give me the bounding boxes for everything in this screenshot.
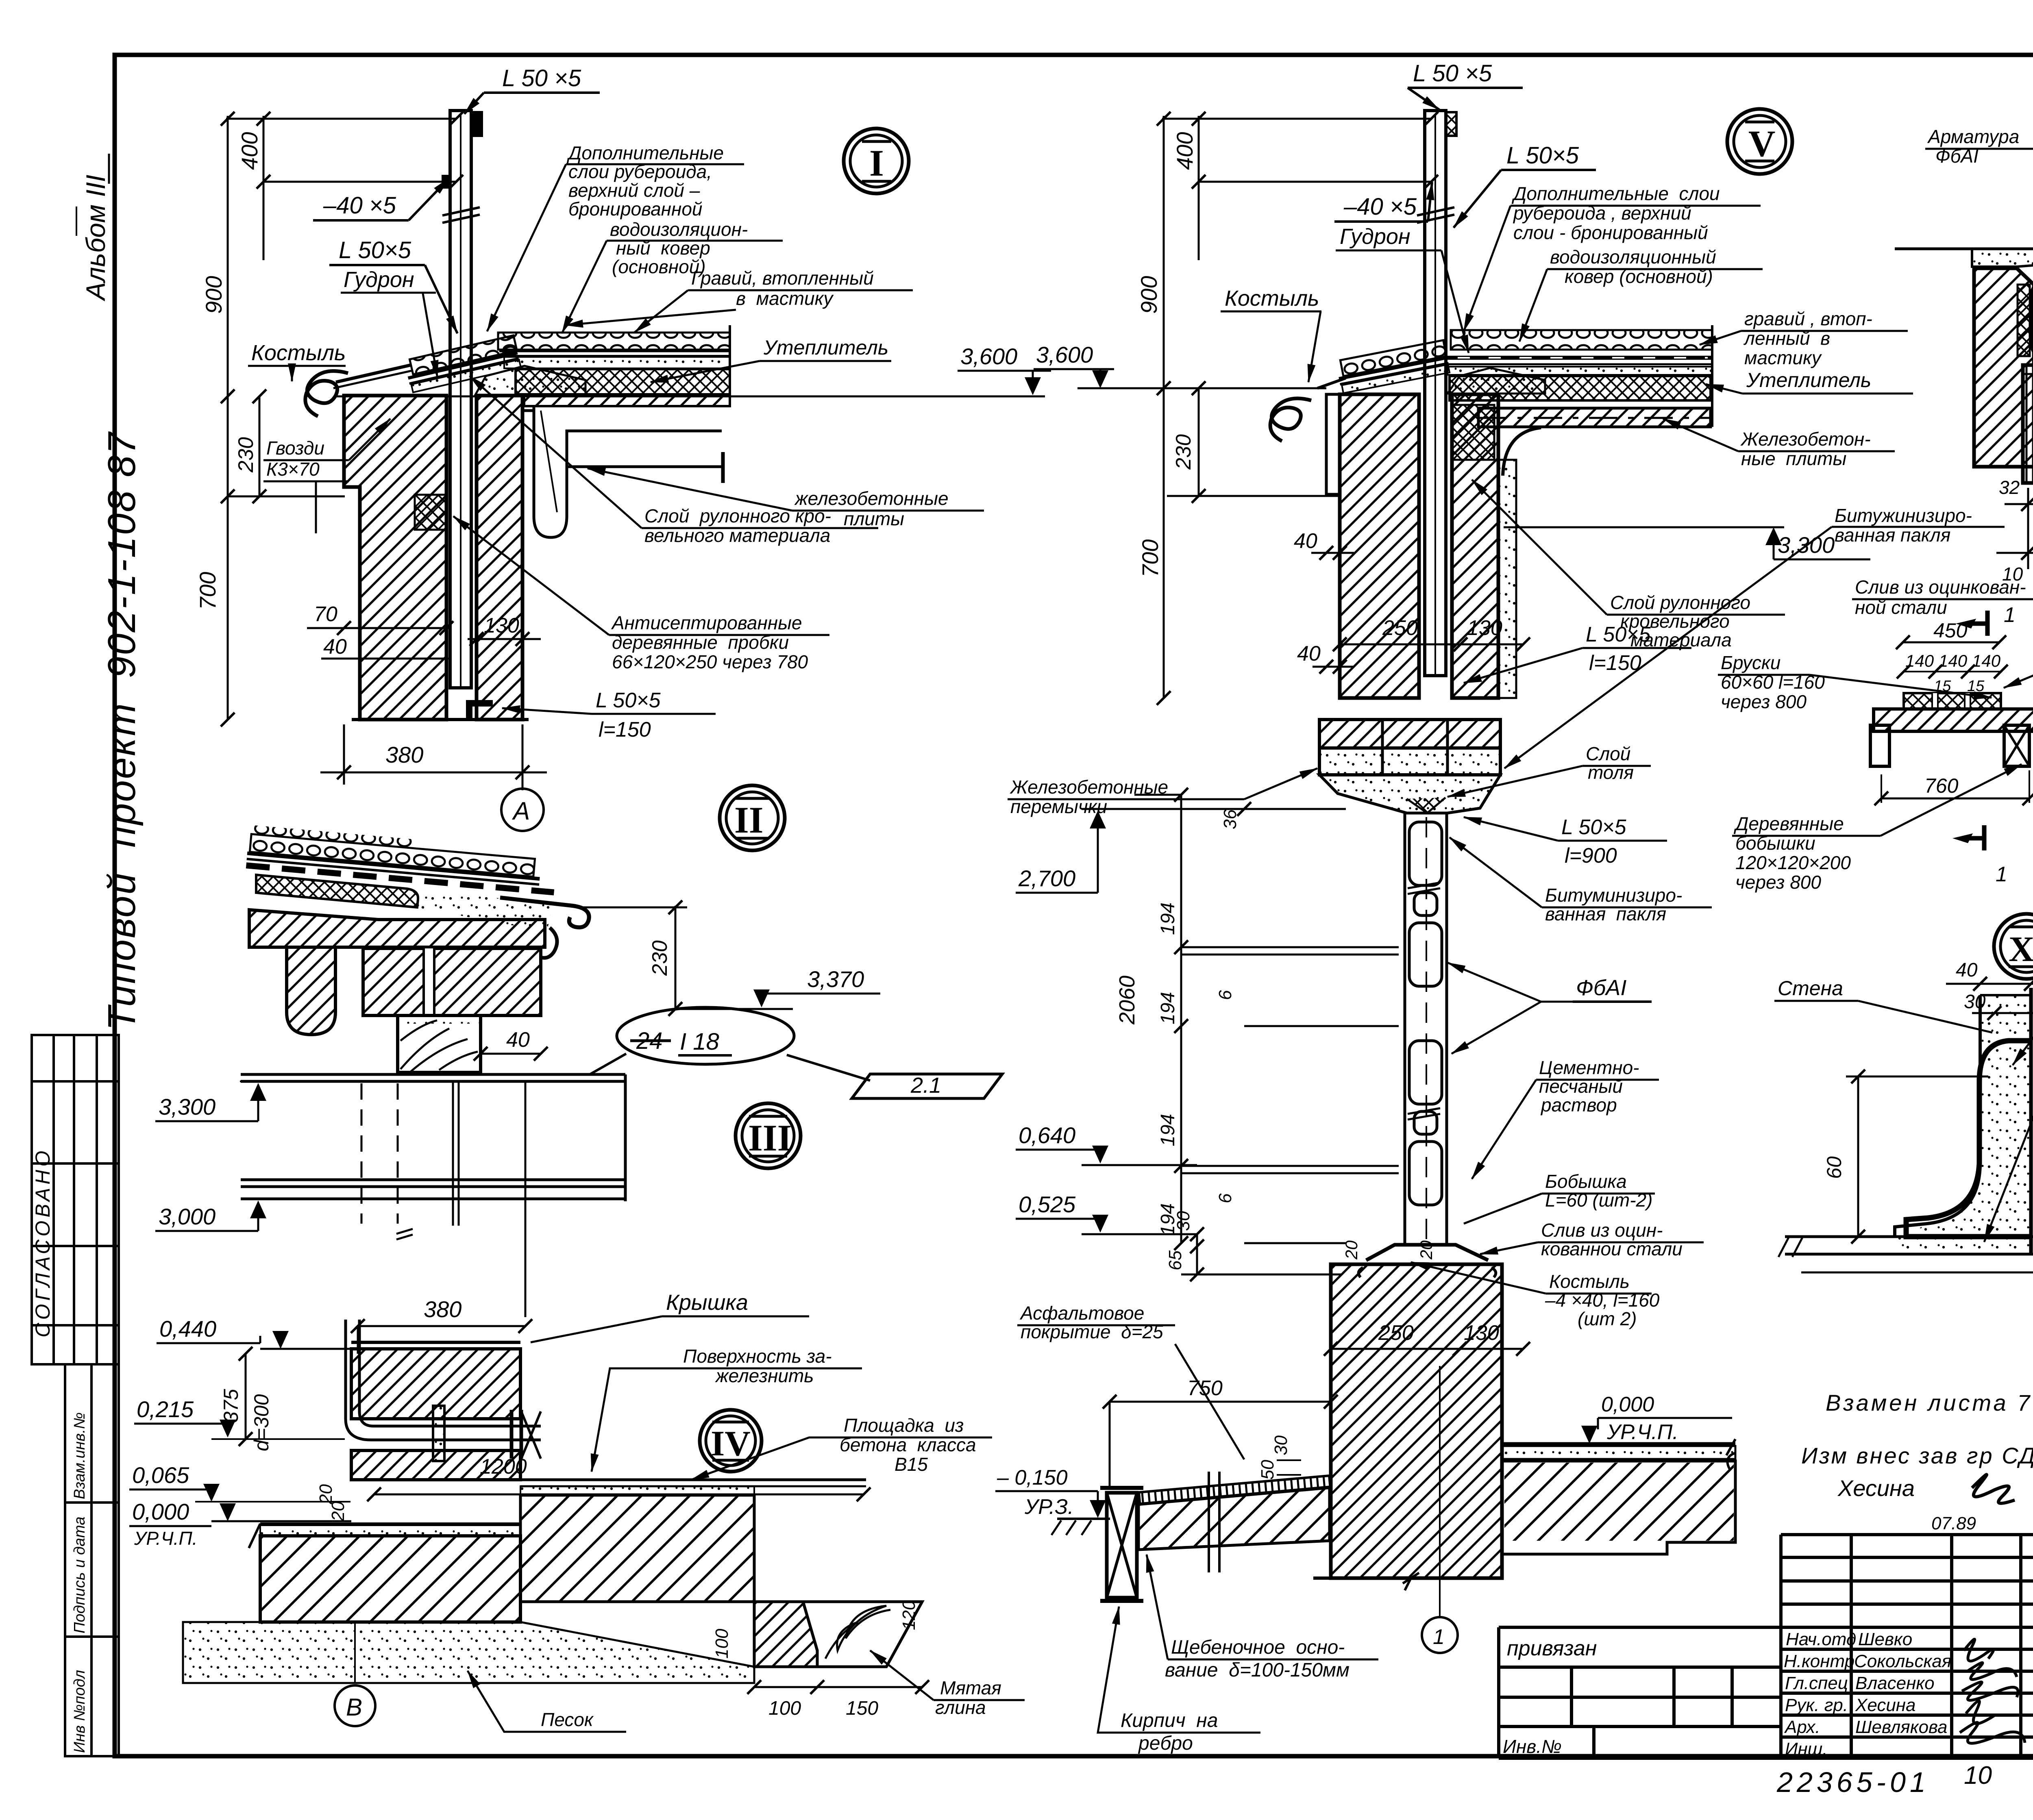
svg-text:3,000: 3,000 bbox=[159, 1204, 215, 1229]
svg-text:400: 400 bbox=[1172, 132, 1197, 170]
svg-text:Рук. гр.: Рук. гр. bbox=[1785, 1695, 1848, 1715]
svg-text:3,300: 3,300 bbox=[159, 1094, 215, 1120]
circled detail number I bbox=[844, 128, 909, 194]
sloped flashing up the parapet bbox=[404, 335, 521, 393]
svg-text:Нач.отд: Нач.отд bbox=[1786, 1629, 1856, 1649]
svg-text:2060: 2060 bbox=[1115, 976, 1139, 1025]
svg-text:3,600: 3,600 bbox=[960, 344, 1017, 369]
svg-text:L 50×5: L 50×5 bbox=[1586, 623, 1651, 646]
svg-text:120: 120 bbox=[899, 1600, 919, 1630]
svg-text:вание δ=100-150мм: вание δ=100-150мм bbox=[1165, 1659, 1350, 1681]
svg-text:20: 20 bbox=[1342, 1240, 1361, 1260]
beam ellipse callout bbox=[617, 1007, 794, 1064]
svg-text:В15: В15 bbox=[895, 1454, 928, 1475]
svg-text:ХI: ХI bbox=[2009, 930, 2033, 969]
svg-text:700: 700 bbox=[1137, 539, 1163, 577]
svg-text:900: 900 bbox=[201, 276, 226, 314]
svg-text:70: 70 bbox=[314, 602, 337, 626]
cove tile thick profile bbox=[1906, 1041, 2030, 1237]
svg-text:Взам.инв.№: Взам.инв.№ bbox=[71, 1412, 88, 1499]
230 dim bbox=[1198, 388, 1200, 496]
svg-text:Сокольская: Сокольская bbox=[1854, 1651, 1951, 1671]
svg-text:Альбом III: Альбом III bbox=[81, 175, 111, 302]
230 dim right bbox=[675, 906, 677, 1009]
svg-text:Слив из оцинкован-: Слив из оцинкован- bbox=[1855, 576, 2026, 598]
svg-text:32: 32 bbox=[1999, 477, 2020, 498]
svg-text:0,640: 0,640 bbox=[1019, 1122, 1075, 1148]
svg-text:Н.контр: Н.контр bbox=[1784, 1651, 1855, 1671]
svg-text:Щебеночное осно-: Щебеночное осно- bbox=[1171, 1637, 1345, 1658]
svg-text:Инш.: Инш. bbox=[1785, 1739, 1827, 1759]
svg-text:0,440: 0,440 bbox=[159, 1316, 216, 1342]
comb surface (brick ramp) bbox=[1139, 1476, 1330, 1505]
svg-text:УР.Ч.П.: УР.Ч.П. bbox=[134, 1528, 198, 1549]
svg-text:L 50 ×5: L 50 ×5 bbox=[502, 65, 581, 91]
svg-text:130: 130 bbox=[1467, 616, 1502, 640]
-0,150 level #1 bbox=[997, 1466, 1074, 1519]
bruski etc labels left bbox=[1721, 652, 1825, 712]
labels bbox=[683, 1346, 832, 1386]
svg-text:Кирпич на: Кирпич на bbox=[1121, 1710, 1218, 1731]
svg-text:Гудрон: Гудрон bbox=[344, 267, 414, 292]
svg-text:Железобетон-: Железобетон- bbox=[1740, 428, 1871, 450]
svg-text:1: 1 bbox=[1433, 1625, 1445, 1649]
svg-text:Утеплитель: Утеплитель bbox=[1746, 369, 1871, 391]
svg-text:22365-01: 22365-01 bbox=[1776, 1766, 1930, 1798]
rib of plate bbox=[287, 947, 335, 1035]
30 / 65 chain at x 2944 bbox=[1196, 1234, 1198, 1274]
stipple zone bbox=[416, 890, 553, 932]
labels bbox=[1165, 1637, 1350, 1681]
svg-text:слои - бронированный: слои - бронированный bbox=[1513, 222, 1708, 243]
roof slab bbox=[524, 396, 730, 537]
svg-text:3,370: 3,370 bbox=[807, 966, 864, 992]
svg-text:194: 194 bbox=[1157, 992, 1179, 1024]
approval table left edge bbox=[32, 1035, 119, 1364]
svg-text:Битуминизиро-: Битуминизиро- bbox=[1545, 885, 1682, 906]
svg-text:10: 10 bbox=[1964, 1761, 1992, 1790]
floor bbox=[1785, 1235, 2033, 1238]
svg-text:Гл.спец: Гл.спец bbox=[1785, 1673, 1848, 1693]
svg-text:66×120×250 через 780: 66×120×250 через 780 bbox=[612, 651, 808, 672]
375 dim and d=300 bbox=[245, 1354, 247, 1439]
svg-text:водоизоляционный: водоизоляционный bbox=[1550, 246, 1716, 267]
brick on edge bbox=[1107, 1493, 1137, 1598]
flag 2.1 bbox=[852, 1074, 1002, 1098]
wooden block with wavy grain bbox=[398, 1015, 481, 1072]
svg-text:100: 100 bbox=[712, 1629, 732, 1659]
crosshatch band bbox=[256, 875, 418, 907]
dim 400 / 900 vertical chain bbox=[226, 116, 456, 720]
asphalt pavement label bbox=[1019, 1302, 1163, 1342]
svg-text:40: 40 bbox=[1297, 642, 1321, 665]
svg-text:I: I bbox=[869, 142, 884, 184]
svg-text:Утеплитель: Утеплитель bbox=[763, 336, 888, 359]
svg-text:мастику: мастику bbox=[1744, 347, 1822, 368]
svg-text:Изм внес зав гр СДС: Изм внес зав гр СДС bbox=[1801, 1443, 2033, 1468]
floor to the right of wall bbox=[520, 1479, 866, 1481]
svg-text:СОГЛАСОВАНО: СОГЛАСОВАНО bbox=[31, 1148, 54, 1337]
svg-text:Слой рулонного: Слой рулонного bbox=[1610, 592, 1750, 613]
svg-text:380: 380 bbox=[424, 1296, 461, 1322]
svg-text:Костыль: Костыль bbox=[1225, 286, 1319, 311]
hook (kostyl) bbox=[305, 371, 348, 416]
svg-text:375: 375 bbox=[220, 1389, 242, 1423]
wall hatched (two parts around post slot) bbox=[344, 396, 529, 720]
labels bbox=[1927, 126, 2019, 167]
svg-text:Битужинизиро-: Битужинизиро- bbox=[1835, 505, 1972, 526]
svg-text:1200: 1200 bbox=[480, 1455, 527, 1479]
svg-text:40: 40 bbox=[323, 635, 347, 659]
svg-text:194: 194 bbox=[1157, 902, 1179, 935]
asphalt wedge below comb bbox=[1138, 1487, 1330, 1550]
svg-text:–40 ×5: –40 ×5 bbox=[1343, 194, 1417, 220]
svg-text:Антисептированные: Антисептированные bbox=[611, 612, 802, 633]
node B bbox=[354, 1622, 356, 1683]
svg-text:0,065: 0,065 bbox=[132, 1462, 189, 1488]
svg-text:Асфальтовое: Асфальтовое bbox=[1019, 1302, 1144, 1324]
0,000 level right bbox=[1601, 1393, 1678, 1444]
svg-text:L 50×5: L 50×5 bbox=[1561, 815, 1627, 839]
svg-text:30: 30 bbox=[1271, 1435, 1291, 1455]
svg-text:40: 40 bbox=[1956, 959, 1978, 981]
svg-text:Бруски: Бруски bbox=[1721, 652, 1781, 673]
glass blocks row bbox=[2031, 280, 2033, 359]
lid plate bbox=[351, 1341, 520, 1344]
svg-text:УР.Ч.П.: УР.Ч.П. bbox=[1606, 1420, 1678, 1444]
svg-text:250: 250 bbox=[1382, 616, 1418, 640]
node A bbox=[501, 789, 544, 831]
svg-text:В: В bbox=[346, 1694, 362, 1721]
svg-text:Бобышка: Бобышка bbox=[1545, 1171, 1627, 1192]
svg-text:230: 230 bbox=[234, 437, 258, 473]
svg-text:120×120×200: 120×120×200 bbox=[1735, 852, 1851, 873]
svg-text:Типовой проект 902-1-108 87: Типовой проект 902-1-108 87 bbox=[100, 431, 144, 1031]
svg-text:Гвозди: Гвозди bbox=[266, 437, 324, 459]
lower wall bbox=[1331, 1264, 1502, 1578]
svg-text:2.1: 2.1 bbox=[910, 1073, 941, 1098]
floor right of lower wall bbox=[1502, 1442, 1735, 1445]
svg-text:привязан: привязан bbox=[1507, 1637, 1597, 1660]
dim chain 2060/194 etc bbox=[1134, 795, 1399, 1243]
svg-text:6: 6 bbox=[1215, 990, 1235, 1000]
svg-text:760: 760 bbox=[1924, 774, 1959, 797]
wall: white strip + hatch parts bbox=[1326, 394, 1498, 698]
svg-text:Арматура: Арматура bbox=[1927, 126, 2019, 147]
kostyl hook bbox=[1270, 398, 1311, 441]
svg-text:L 50×5: L 50×5 bbox=[596, 689, 661, 712]
svg-text:d=300: d=300 bbox=[250, 1394, 273, 1451]
floor and ground below bbox=[260, 1522, 520, 1525]
svg-text:230: 230 bbox=[1172, 434, 1195, 470]
svg-text:Слой: Слой bbox=[1586, 743, 1630, 764]
svg-text:140: 140 bbox=[1972, 651, 2001, 670]
svg-text:верхний слой –: верхний слой – bbox=[568, 180, 700, 201]
svg-text:L 50 ×5: L 50 ×5 bbox=[1413, 60, 1492, 87]
FBS block column bbox=[1405, 813, 1447, 1243]
svg-text:Деревянные: Деревянные bbox=[1733, 813, 1844, 834]
svg-text:230: 230 bbox=[648, 940, 672, 976]
svg-text:Шевлякова: Шевлякова bbox=[1855, 1717, 1948, 1737]
svg-text:Взамен листа 7: Взамен листа 7 bbox=[1826, 1390, 2032, 1416]
svg-text:Поверхность за-: Поверхность за- bbox=[683, 1346, 832, 1367]
svg-text:раствор: раствор bbox=[1540, 1094, 1617, 1115]
svg-text:Хесина: Хесина bbox=[1855, 1695, 1915, 1715]
cant wedge right of post bbox=[1447, 368, 1545, 394]
svg-text:Стена: Стена bbox=[1778, 977, 1843, 1000]
svg-text:750: 750 bbox=[1187, 1376, 1223, 1400]
pit with clay bbox=[754, 1602, 817, 1667]
sand below bbox=[183, 1622, 754, 1683]
lintels under slab bbox=[363, 948, 541, 1015]
svg-text:через 800: через 800 bbox=[1735, 872, 1821, 893]
svg-text:65: 65 bbox=[1165, 1250, 1185, 1270]
svg-text:50: 50 bbox=[1258, 1460, 1278, 1480]
svg-text:III: III bbox=[748, 1117, 792, 1159]
svg-text:Власенко: Власенко bbox=[1855, 1673, 1935, 1693]
svg-text:40: 40 bbox=[506, 1028, 530, 1052]
top bands bbox=[1972, 249, 2033, 267]
svg-text:L 50×5: L 50×5 bbox=[1506, 142, 1579, 169]
svg-text:194: 194 bbox=[1157, 1114, 1179, 1146]
svg-text:водоизоляцион-: водоизоляцион- bbox=[610, 219, 748, 240]
svg-text:700: 700 bbox=[195, 572, 220, 610]
parapet steel post bbox=[442, 111, 482, 688]
svg-text:1: 1 bbox=[1996, 863, 2007, 886]
gravel mound sloping bbox=[246, 825, 557, 892]
svg-text:40: 40 bbox=[1294, 529, 1317, 553]
svg-text:Дополнительные слои: Дополнительные слои bbox=[1511, 183, 1720, 204]
svg-text:Слив из оцин-: Слив из оцин- bbox=[1541, 1220, 1663, 1241]
svg-text:0,525: 0,525 bbox=[1019, 1192, 1076, 1217]
wall + cove bbox=[2029, 988, 2033, 1254]
svg-text:гравий , втоп-: гравий , втоп- bbox=[1744, 308, 1872, 329]
svg-text:Дополнительные: Дополнительные bbox=[566, 142, 724, 163]
svg-text:30: 30 bbox=[1173, 1211, 1193, 1231]
svg-text:ФбАI: ФбАI bbox=[1576, 976, 1626, 1000]
svg-text:ребро: ребро bbox=[1138, 1733, 1193, 1754]
steel post bbox=[1417, 111, 1456, 676]
svg-text:Слой рулонного кро-: Слой рулонного кро- bbox=[644, 505, 831, 526]
svg-text:2,700: 2,700 bbox=[1018, 865, 1075, 891]
svg-text:0,215: 0,215 bbox=[137, 1396, 194, 1422]
wooden plug crosshatch in wall bbox=[415, 495, 447, 530]
svg-text:Площадка из: Площадка из bbox=[844, 1415, 964, 1436]
svg-text:Гудрон: Гудрон bbox=[1340, 224, 1410, 249]
svg-text:Гравий, втопленный: Гравий, втопленный bbox=[691, 267, 874, 289]
svg-text:– 0,150: – 0,150 bbox=[997, 1466, 1068, 1489]
svg-text:0,000: 0,000 bbox=[132, 1499, 189, 1524]
svg-text:Крышка: Крышка bbox=[666, 1290, 748, 1315]
svg-text:3,600: 3,600 bbox=[1036, 342, 1093, 367]
svg-text:УР.З.: УР.З. bbox=[1024, 1495, 1074, 1519]
roof right of wall bbox=[1478, 408, 1711, 427]
svg-text:Цементно-: Цементно- bbox=[1539, 1057, 1639, 1078]
sliv flashing on lower wall top bbox=[1366, 1245, 1488, 1260]
jambs bbox=[1974, 268, 2033, 467]
svg-text:900: 900 bbox=[1136, 276, 1162, 314]
vertical pipe + elbow + horizontal pipe bbox=[346, 1320, 541, 1440]
svg-text:Песок: Песок bbox=[541, 1709, 594, 1730]
svg-text:1: 1 bbox=[2004, 603, 2016, 627]
lintel blocks bbox=[1319, 720, 1500, 748]
380 dim bbox=[358, 1325, 525, 1327]
svg-text:Шевко: Шевко bbox=[1858, 1629, 1912, 1649]
svg-text:l=150: l=150 bbox=[599, 718, 651, 741]
bottom dims bbox=[1996, 488, 2033, 569]
svg-text:36: 36 bbox=[1220, 809, 1240, 829]
dim 380 bbox=[343, 724, 345, 785]
svg-text:II: II bbox=[734, 799, 764, 841]
svg-text:130: 130 bbox=[484, 614, 519, 637]
60 dim bbox=[1857, 1076, 1859, 1237]
svg-text:через 800: через 800 bbox=[1721, 691, 1807, 712]
svg-text:60: 60 bbox=[1823, 1156, 1846, 1179]
svg-text:400: 400 bbox=[237, 132, 262, 170]
wall with pipe slot bbox=[351, 1349, 520, 1419]
dims 400/900 bbox=[1162, 116, 1431, 698]
svg-text:Костыль: Костыль bbox=[251, 341, 346, 365]
svg-text:6: 6 bbox=[1215, 1193, 1235, 1203]
svg-text:Арх.: Арх. bbox=[1784, 1717, 1820, 1737]
svg-text:07.89: 07.89 bbox=[1931, 1513, 1976, 1533]
svg-text:0,000: 0,000 bbox=[1601, 1393, 1654, 1416]
svg-text:V: V bbox=[1748, 123, 1775, 164]
svg-text:l=900: l=900 bbox=[1565, 844, 1617, 868]
svg-text:380: 380 bbox=[385, 742, 423, 768]
svg-text:250: 250 bbox=[1378, 1321, 1414, 1345]
axis 1 bbox=[1439, 1366, 1441, 1617]
svg-text:Инв №подл: Инв №подл bbox=[71, 1670, 88, 1753]
svg-text:IV: IV bbox=[711, 1424, 751, 1463]
svg-text:Мятая: Мятая bbox=[940, 1677, 1001, 1698]
svg-text:(шт 2): (шт 2) bbox=[1578, 1308, 1637, 1329]
sloped flashing left of post bbox=[1336, 340, 1450, 393]
bottom-left binding boxes bbox=[65, 1364, 119, 1756]
mortar cant wedge bbox=[475, 366, 586, 396]
slab band bbox=[249, 910, 545, 947]
corrugated block below bbox=[2023, 365, 2033, 483]
svg-text:l=150: l=150 bbox=[1589, 651, 1641, 675]
svg-text:L 50×5: L 50×5 bbox=[339, 237, 411, 263]
L50x5 angle at post bottom (solid) bbox=[466, 700, 493, 718]
svg-text:К3×70: К3×70 bbox=[266, 459, 320, 480]
svg-text:Хесина: Хесина bbox=[1837, 1475, 1915, 1501]
svg-text:100: 100 bbox=[768, 1698, 801, 1719]
roof layers bbox=[516, 369, 730, 394]
svg-text:–40 ×5: –40 ×5 bbox=[323, 192, 396, 219]
svg-text:140: 140 bbox=[1905, 651, 1934, 670]
svg-text:130: 130 bbox=[1464, 1321, 1499, 1345]
svg-text:140: 140 bbox=[1939, 651, 1968, 670]
svg-text:20: 20 bbox=[1417, 1240, 1436, 1260]
svg-text:А: А bbox=[512, 797, 530, 825]
svg-text:Костыль: Костыль bbox=[1549, 1271, 1630, 1292]
svg-text:бронированной: бронированной bbox=[568, 198, 702, 220]
svg-text:Подпись и дата: Подпись и дата bbox=[71, 1517, 88, 1633]
svg-text:I 18: I 18 bbox=[680, 1029, 719, 1055]
svg-text:20: 20 bbox=[328, 1501, 348, 1522]
svg-text:Инв.№: Инв.№ bbox=[1503, 1736, 1562, 1757]
flashing drip end with hook bbox=[500, 898, 589, 927]
svg-text:Железобетонные: Железобетонные bbox=[1010, 776, 1168, 798]
svg-text:150: 150 bbox=[846, 1698, 878, 1719]
